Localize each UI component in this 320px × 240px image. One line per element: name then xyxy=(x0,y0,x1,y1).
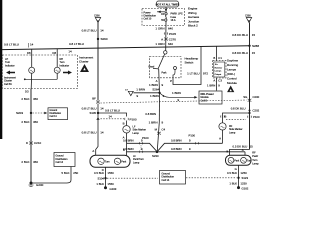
dashed grommet association xyxy=(226,118,246,120)
svg-text:S230: S230 xyxy=(152,154,159,158)
svg-text:14: 14 xyxy=(100,107,104,111)
splice S203 xyxy=(16,111,47,115)
svg-text:1 BRN: 1 BRN xyxy=(207,83,215,87)
connector A C270 xyxy=(161,37,176,41)
dashed line ground dist to S123 xyxy=(186,177,237,179)
svg-text:Head: Head xyxy=(149,66,155,69)
svg-text:Exterior: Exterior xyxy=(215,66,223,69)
svg-text:16 A: 16 A xyxy=(171,19,176,22)
svg-text:Cell 14: Cell 14 xyxy=(50,116,58,118)
svg-text:0.8 BRN: 0.8 BRN xyxy=(171,138,182,142)
svg-text:B: B xyxy=(123,148,125,152)
svg-text:C1: C1 xyxy=(218,56,222,60)
label box Ground Distribution Cell 14 xyxy=(48,108,68,120)
label 1 ORN 640 xyxy=(155,27,173,31)
svg-text:1 BLK: 1 BLK xyxy=(229,181,237,185)
wire branch to rf side marker xyxy=(248,112,250,114)
svg-text:Indicator: Indicator xyxy=(60,64,70,67)
svg-text:Distribution: Distribution xyxy=(50,112,62,115)
grommet P100 right xyxy=(247,115,260,119)
wire rf lamp ground xyxy=(238,165,240,187)
label Headlamp Switch xyxy=(185,57,199,65)
label 0.8 LT BLU 14 mid xyxy=(68,42,84,53)
wire arrow to power distribution xyxy=(157,11,165,14)
wire brn lower xyxy=(127,151,246,153)
label 0.8 BRN 9 lower right xyxy=(171,147,191,151)
svg-text:S105: S105 xyxy=(89,111,96,115)
drl module dashed box xyxy=(213,61,226,78)
drl inner box xyxy=(214,62,225,77)
icon drl note triangle xyxy=(227,86,234,93)
label 0.8 DK BLU 15 xyxy=(232,33,255,37)
grommet P100 pair xyxy=(139,136,149,154)
svg-text:1 ORN: 1 ORN xyxy=(155,42,164,46)
svg-text:G103: G103 xyxy=(110,187,117,191)
svg-text:Park: Park xyxy=(121,160,127,163)
label 0.8 LT BLU 14 branch xyxy=(105,108,120,118)
label 1 LT BLU 972 xyxy=(187,71,208,75)
wire S264 to triangle xyxy=(134,92,159,94)
offpage triangle rear lamps xyxy=(125,89,133,95)
node fuse top xyxy=(165,9,167,11)
lamp RH turn indicator xyxy=(54,67,60,73)
connector BF C200 xyxy=(92,97,100,104)
svg-text:C270: C270 xyxy=(169,37,177,41)
label PARK LPS Fuse 16 A xyxy=(171,13,183,23)
svg-text:S264: S264 xyxy=(152,87,159,91)
svg-text:A: A xyxy=(161,37,163,41)
label 1 BRN 9 below splice xyxy=(150,94,165,98)
wire 0.8 LT BLU 14 vertical xyxy=(97,23,99,101)
wire off contact to pin P xyxy=(173,70,175,79)
label RF Side Marker Lamp xyxy=(229,125,243,134)
svg-text:2 BLK: 2 BLK xyxy=(21,97,29,101)
wire to lf side marker xyxy=(126,121,128,126)
svg-text:14: 14 xyxy=(100,130,104,134)
label 2 BLK 450 xyxy=(21,120,38,124)
connector SG C200 xyxy=(243,95,259,102)
svg-text:1 LT BLU: 1 LT BLU xyxy=(187,71,199,75)
wire branch to side marker xyxy=(98,113,127,117)
svg-text:A: A xyxy=(219,136,221,140)
svg-text:0.8 LT BLU: 0.8 LT BLU xyxy=(82,130,97,134)
pin B C1 xyxy=(213,56,222,60)
lamp assembly RF park turn xyxy=(226,155,253,165)
wire cluster rh feed xyxy=(56,49,58,67)
svg-text:0.8 BRN: 0.8 BRN xyxy=(171,147,182,151)
wire lf lamp b riser xyxy=(126,143,128,155)
headlamp switch dashed box xyxy=(150,57,182,78)
label 1 BRN 9 mid xyxy=(149,121,164,125)
splice S105 xyxy=(89,111,99,115)
svg-text:1250: 1250 xyxy=(241,171,248,175)
dashed line S104 to ground dist xyxy=(107,177,158,179)
dashed association line lf xyxy=(101,118,125,120)
label 2 BLK 450 xyxy=(21,160,38,164)
svg-text:C3: C3 xyxy=(218,78,222,82)
lamp LF side marker xyxy=(123,126,130,133)
svg-text:0.8 DK BLU: 0.8 DK BLU xyxy=(232,51,248,55)
splice S123 xyxy=(237,176,248,180)
svg-text:2 BLK: 2 BLK xyxy=(21,120,29,124)
label 1 BRN 9 xyxy=(172,91,181,102)
label 0.5 DK BLU 15 xyxy=(233,144,254,148)
label 5 BLK 250 xyxy=(61,171,78,175)
label 0.5 BLK 1550 xyxy=(94,171,114,175)
svg-text:450: 450 xyxy=(33,160,38,164)
wire rf marker to brn xyxy=(222,130,224,143)
svg-text:Cell 81: Cell 81 xyxy=(4,83,12,86)
svg-text:Daytime: Daytime xyxy=(227,58,238,62)
svg-text:0.8 LT BLU: 0.8 LT BLU xyxy=(82,107,97,111)
svg-text:0.8 BRN: 0.8 BRN xyxy=(123,138,134,142)
grommet P100 lf marker xyxy=(124,117,136,121)
svg-text:Cluster: Cluster xyxy=(79,60,89,64)
icon cluster note triangle xyxy=(80,64,89,72)
label 1 BRN 9 drl xyxy=(207,83,220,87)
label 0.8 LT BLU 14 left xyxy=(4,43,34,48)
switch contact off xyxy=(174,67,177,70)
dashed C200 association line xyxy=(101,100,247,103)
svg-text:15: 15 xyxy=(252,51,256,55)
wire drl b feed xyxy=(216,46,218,60)
label HOT AT ALL TIMES xyxy=(156,1,180,7)
svg-text:1 BRN: 1 BRN xyxy=(149,83,158,87)
svg-text:P100: P100 xyxy=(253,115,260,119)
label Power Distribution Cell 10 xyxy=(144,12,157,21)
svg-text:1250: 1250 xyxy=(241,181,248,185)
scan edge bar xyxy=(0,0,2,139)
svg-text:RF: RF xyxy=(252,152,256,155)
svg-text:1 BLK: 1 BLK xyxy=(96,182,104,186)
svg-text:HOT AT ALL TIMES: HOT AT ALL TIMES xyxy=(156,2,180,6)
svg-text:P105: P105 xyxy=(169,32,176,36)
svg-text:0.8 DK BLU: 0.8 DK BLU xyxy=(232,33,248,37)
wire 5 BLK 250 xyxy=(32,167,71,184)
svg-text:0.8 LT BLU: 0.8 LT BLU xyxy=(105,108,120,112)
svg-text:Lamp: Lamp xyxy=(229,131,236,134)
wire rf lamp a riser xyxy=(244,152,246,156)
svg-text:450: 450 xyxy=(33,120,38,124)
splice S230 xyxy=(152,151,159,158)
svg-text:B: B xyxy=(225,115,227,119)
label 0.8 LT BLU 14 xyxy=(82,29,104,33)
label RH Turn Indicator xyxy=(60,58,70,67)
svg-text:Output: Output xyxy=(215,73,222,76)
svg-text:Lamp: Lamp xyxy=(252,162,259,165)
wire lf marker to brn bus xyxy=(126,133,128,143)
svg-text:(DRL): (DRL) xyxy=(227,72,235,76)
svg-text:P: P xyxy=(170,79,172,83)
offpage connector triangle left xyxy=(94,16,101,23)
svg-text:1550: 1550 xyxy=(108,171,115,175)
pin A C3 xyxy=(213,78,222,82)
label 1 BLK 1250 xyxy=(229,181,247,185)
junction block dashed box xyxy=(142,9,185,26)
svg-text:Turn: Turn xyxy=(252,159,258,162)
label 2 BLK 450 xyxy=(21,97,38,101)
svg-text:14: 14 xyxy=(100,29,104,33)
svg-text:B: B xyxy=(213,56,215,60)
grommet rf marker xyxy=(220,115,224,118)
connector M C100 xyxy=(155,128,166,135)
icon left arrow xyxy=(6,71,15,75)
wire lf lamp ground xyxy=(105,167,107,187)
svg-text:Block 2: Block 2 xyxy=(188,24,198,28)
wire dk blu to rf lamp xyxy=(230,150,250,156)
splice S260 xyxy=(97,37,108,41)
svg-text:450: 450 xyxy=(33,97,38,101)
splice S264 xyxy=(136,87,160,94)
label Instrument Cluster inner xyxy=(4,77,16,86)
svg-text:1 BRN: 1 BRN xyxy=(172,91,181,95)
icon right arrow xyxy=(63,71,72,75)
svg-text:5 BLK: 5 BLK xyxy=(61,171,69,175)
ground G102 xyxy=(237,186,249,191)
wire 2 BLK 450 xyxy=(30,89,32,184)
offpage connector triangle right xyxy=(245,16,252,23)
svg-text:D8: D8 xyxy=(52,51,56,55)
lamp assembly LF park turn xyxy=(90,155,130,167)
label 0.8 BRN 9 upper right xyxy=(171,138,191,142)
svg-text:1 BRN: 1 BRN xyxy=(149,121,158,125)
wire P loop to drl xyxy=(173,46,201,84)
svg-text:Cell 14: Cell 14 xyxy=(162,179,170,182)
svg-text:0.8 LT BLU: 0.8 LT BLU xyxy=(4,43,19,47)
label 1 ORN 640 lower xyxy=(155,42,173,46)
wire 0.8 LT BLU 14 below BF xyxy=(96,104,98,156)
svg-text:Ground: Ground xyxy=(50,109,58,112)
label Daytime Running Lamps DRL Control Module xyxy=(227,58,239,85)
svg-text:972: 972 xyxy=(203,71,208,75)
switch pivot terminal xyxy=(164,51,167,54)
wire 1 ORN 640 upper xyxy=(165,21,167,51)
lamp RF side marker xyxy=(219,115,227,141)
splice S288 xyxy=(248,44,259,48)
svg-text:Cell 10: Cell 10 xyxy=(144,18,152,21)
svg-text:C200: C200 xyxy=(253,95,260,99)
svg-text:A: A xyxy=(213,78,215,82)
svg-text:0.8 BRN: 0.8 BRN xyxy=(145,112,156,116)
svg-text:Turn: Turn xyxy=(105,160,110,163)
lamp LH turn indicator xyxy=(29,67,35,73)
label 1 BRN 9 switch A xyxy=(149,83,164,87)
wire S264 to drl power arrow xyxy=(160,93,197,98)
grommet P100 right xyxy=(189,134,200,145)
label LF Side Marker Lamp xyxy=(133,125,147,134)
svg-text:Control: Control xyxy=(227,76,237,80)
grommet triangle xyxy=(96,117,99,120)
label Instrument Cluster outer xyxy=(79,56,93,64)
svg-text:Lamps: Lamps xyxy=(227,67,237,71)
grommet P105 xyxy=(164,32,176,36)
label 0.5 BLK 1250 xyxy=(227,171,247,175)
svg-text:G102: G102 xyxy=(242,187,249,191)
svg-text:Indicator: Indicator xyxy=(5,64,15,67)
wire S264 down xyxy=(158,93,160,122)
svg-text:14: 14 xyxy=(68,50,72,54)
svg-text:250: 250 xyxy=(73,171,78,175)
label LH Turn Indicator xyxy=(5,58,15,67)
label RF Park Turn Lamp xyxy=(252,152,259,166)
svg-text:S203: S203 xyxy=(16,111,23,115)
connector D C210 xyxy=(26,141,42,145)
svg-text:P100: P100 xyxy=(142,136,149,140)
svg-text:BF: BF xyxy=(92,97,96,101)
instrument cluster dashed box xyxy=(2,55,77,89)
svg-text:0.8 LT BLU: 0.8 LT BLU xyxy=(82,29,97,33)
svg-text:1 BRN: 1 BRN xyxy=(150,94,159,98)
wire brn upper xyxy=(127,143,223,151)
svg-text:15: 15 xyxy=(250,144,254,148)
svg-text:640: 640 xyxy=(168,27,173,31)
svg-text:1 BRN: 1 BRN xyxy=(136,87,145,91)
svg-text:S260: S260 xyxy=(101,37,108,41)
switch lever xyxy=(158,54,165,69)
svg-text:15: 15 xyxy=(252,33,256,37)
ground G103 xyxy=(104,186,117,191)
svg-text:Lamp: Lamp xyxy=(133,161,140,164)
svg-text:C210: C210 xyxy=(34,141,42,145)
svg-text:Cell 14: Cell 14 xyxy=(56,161,64,164)
svg-text:P100: P100 xyxy=(130,117,137,121)
label box DRL Power Module Cell 8 xyxy=(199,91,222,104)
svg-text:Lamp: Lamp xyxy=(133,132,140,135)
svg-text:0.5 BLK: 0.5 BLK xyxy=(227,171,237,175)
svg-text:SG: SG xyxy=(243,95,247,99)
fuse PARK LPS xyxy=(161,13,167,22)
svg-text:G200: G200 xyxy=(36,183,44,187)
svg-text:0.5 BLK: 0.5 BLK xyxy=(94,171,104,175)
svg-text:S288: S288 xyxy=(252,44,259,48)
svg-text:C4: C4 xyxy=(162,128,166,132)
svg-text:Lamps: Lamps xyxy=(215,71,222,73)
svg-text:S123: S123 xyxy=(242,176,249,180)
label 0.8 BRN 9 upper left xyxy=(123,138,143,142)
ground G200 xyxy=(29,182,44,187)
svg-text:Park/: Park/ xyxy=(252,155,258,158)
label box Ground Distribution Cell 14 second xyxy=(54,153,75,167)
wire drl a out xyxy=(216,78,218,91)
svg-text:2 BLK: 2 BLK xyxy=(21,160,29,164)
svg-text:0.5 DK BLU: 0.5 DK BLU xyxy=(233,144,248,148)
svg-text:640: 640 xyxy=(168,42,173,46)
label 0.8 DK BLU 15 below splice xyxy=(232,51,255,55)
svg-text:P100: P100 xyxy=(189,134,196,138)
svg-text:D8: D8 xyxy=(27,51,31,55)
svg-text:A: A xyxy=(92,149,94,153)
svg-text:A: A xyxy=(242,148,244,152)
svg-text:S104: S104 xyxy=(97,176,104,180)
wire cluster lh feed xyxy=(31,49,33,67)
connector C202 xyxy=(249,109,260,113)
svg-text:14: 14 xyxy=(109,114,113,118)
wire 0.8 DK BLU 15 vertical xyxy=(249,23,251,150)
label LF Park Turn Lamp xyxy=(133,155,144,164)
svg-text:14: 14 xyxy=(30,43,34,47)
wire lamp grounds xyxy=(30,73,33,88)
wire park contact to pin A xyxy=(158,69,160,78)
svg-text:B: B xyxy=(123,122,125,126)
label 1 BLK 1550 xyxy=(96,182,114,186)
wire bus horizontal xyxy=(2,46,250,50)
splice S104 xyxy=(97,176,106,180)
label 0.8 BRN 9 lower left xyxy=(123,147,143,151)
label 0.8 LT BLU 14 xyxy=(82,107,104,111)
svg-text:Park: Park xyxy=(162,71,168,74)
svg-text:Switch: Switch xyxy=(185,61,194,65)
wire fuse feed xyxy=(165,7,167,13)
label Engine Wiring Harness Junction Block 2 xyxy=(188,7,200,28)
svg-text:D3: D3 xyxy=(25,90,29,94)
svg-text:Park: Park xyxy=(234,159,240,162)
svg-text:0.8 DK BLU: 0.8 DK BLU xyxy=(231,107,246,111)
label box Ground Distribution Cell 14 third xyxy=(160,171,186,185)
svg-text:C202: C202 xyxy=(253,109,260,113)
wire switch A down xyxy=(158,78,161,93)
svg-text:0.8 LT BLU: 0.8 LT BLU xyxy=(69,42,84,46)
svg-text:Running: Running xyxy=(227,63,239,67)
svg-text:1 ORN: 1 ORN xyxy=(155,27,164,31)
svg-text:Module: Module xyxy=(227,81,237,85)
label 0.8 LT BLU 14 lower xyxy=(82,130,104,134)
svg-text:1550: 1550 xyxy=(108,182,115,186)
svg-text:B: B xyxy=(226,150,228,154)
